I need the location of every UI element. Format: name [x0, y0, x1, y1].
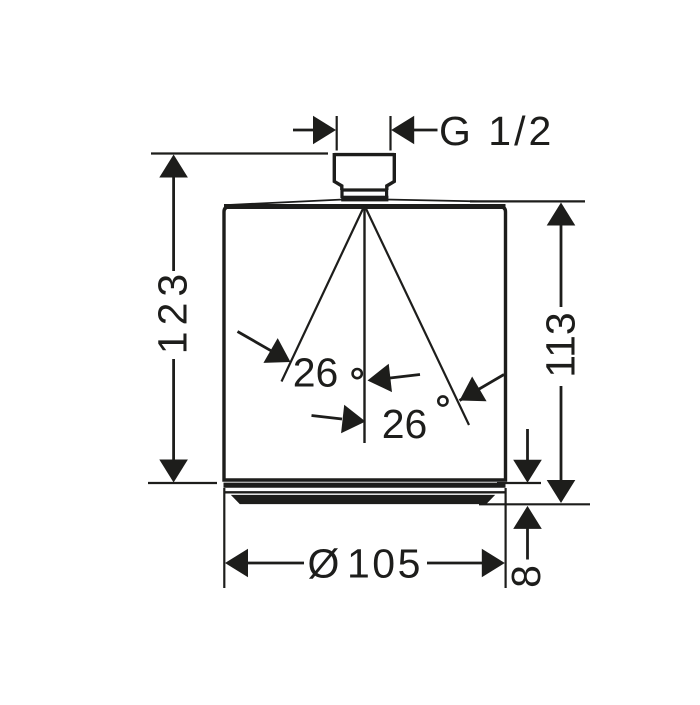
body top face line [228, 200, 478, 206]
dim 8 top arrow tail [526, 429, 529, 461]
svg-text:123: 123 [150, 268, 196, 354]
connector base band [341, 196, 388, 202]
G1/2 extension line right [389, 116, 391, 151]
svg-text:113: 113 [538, 312, 584, 377]
dim 123 line lower [172, 359, 175, 464]
dim 8 extension line top [497, 482, 541, 484]
G1/2 right arrow [413, 129, 438, 132]
G1/2 left arrow [293, 129, 314, 132]
dim 8 bottom arrow tail [526, 528, 529, 560]
spray plate [232, 495, 494, 503]
fan left line 26deg [282, 206, 365, 382]
G1/2 extension line left [336, 116, 338, 151]
dim 113 line lower [560, 386, 563, 485]
connector nut G1/2 [334, 153, 394, 190]
dim 113 line upper [560, 220, 563, 307]
svg-text:26: 26 [293, 350, 339, 396]
dim 105 line right [427, 562, 482, 565]
body bottom edge [224, 483, 506, 488]
dim 113 extension bottom [479, 503, 590, 505]
svg-text:Ø: Ø [308, 541, 340, 587]
svg-text:26: 26 [382, 401, 428, 447]
fan right line 26deg [365, 206, 470, 426]
connector neck sides [342, 190, 387, 198]
angle arrow D lower pointing right [312, 416, 343, 420]
dim 105 line left [247, 562, 304, 565]
connector neck line [342, 188, 387, 191]
dim 123 line upper [172, 172, 175, 271]
angle arrow A upper-left [238, 332, 273, 352]
svg-text:105: 105 [347, 541, 423, 587]
dim 123 extension top [151, 152, 328, 154]
svg-text:G 1/2: G 1/2 [439, 108, 554, 154]
svg-text:8: 8 [503, 565, 549, 588]
dim 113 extension top [470, 200, 585, 202]
dim 105 extension left [223, 488, 225, 588]
dim 105 extension right [505, 488, 507, 588]
fan center line [363, 206, 365, 444]
body bottom inner ring line [224, 491, 505, 493]
body outline (shower head) [224, 207, 506, 481]
dim 123 extension bottom [148, 482, 217, 484]
angle arrow B mid pointing left [390, 375, 420, 379]
angle arrow C right pointing down-left [460, 375, 505, 401]
